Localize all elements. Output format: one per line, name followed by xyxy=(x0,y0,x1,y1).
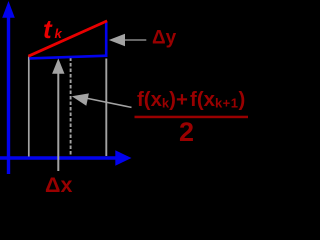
x-axis xyxy=(0,150,132,165)
svg-text:Δy: Δy xyxy=(152,28,177,49)
blue horizontal chord line xyxy=(29,56,107,59)
gray right side of trapezoid xyxy=(105,59,107,157)
fraction bar xyxy=(135,116,249,119)
svg-text:k: k xyxy=(55,26,63,41)
gray left side of trapezoid xyxy=(28,57,30,157)
dashed midpoint line xyxy=(70,58,72,155)
blue delta-y segment xyxy=(105,22,108,57)
diagonal arrow for formula pointing at dashed line xyxy=(72,93,132,107)
svg-text:2: 2 xyxy=(179,117,194,147)
red secant line t_k xyxy=(28,21,107,56)
left arrow for delta-y xyxy=(109,34,147,46)
svg-text:Δx: Δx xyxy=(45,173,72,192)
up arrow (from delta-x region to blue line) xyxy=(52,58,64,171)
svg-text:t: t xyxy=(43,14,53,44)
y-axis xyxy=(2,1,15,174)
